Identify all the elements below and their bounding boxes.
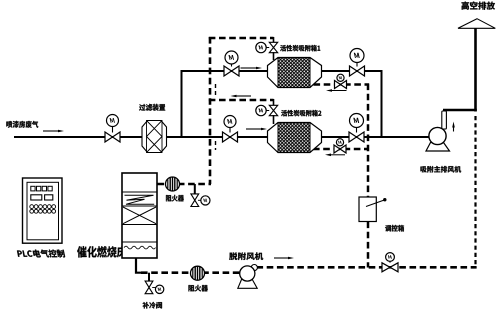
- wire main gas line from inlet to main fan: [14, 136, 429, 138]
- wire dashed desorption supply riser (left): [209, 37, 212, 184]
- fan impeller circle main exhaust fan: [429, 127, 446, 144]
- label stack 高空排放: [462, 2, 495, 10]
- PLC cabinet display windows: [31, 195, 53, 200]
- wire bed bottom elbow: [136, 258, 142, 273]
- valve V2 adsorber 2 inlet: [223, 132, 238, 142]
- label filter 过滤装置: [139, 104, 165, 111]
- wire fan discharge pipe: [443, 109, 477, 112]
- wire branch riser up to adsorber 1 inlet: [181, 70, 183, 138]
- adsorber tank A1 body: [268, 58, 322, 88]
- label desorption fan 脱附风机: [229, 252, 263, 260]
- PLC control cabinet body: [23, 178, 63, 243]
- label adsorber 1 活性炭吸附箱1: [280, 45, 320, 51]
- wire adsorber 1 outlet drop to main line: [381, 70, 383, 137]
- label adsorber 2 活性炭吸附箱2: [281, 110, 321, 116]
- label PLC cabinet PLC电气控制: [17, 250, 65, 258]
- link TV1 motor: [266, 47, 269, 49]
- valve V3 adsorber 2 outlet: [349, 132, 364, 142]
- label damper box 调控箱: [385, 225, 404, 232]
- valve TV2 adsorber 2 desorption inlet: [269, 105, 277, 115]
- label waste gas inlet 喷漆房废气: [6, 121, 38, 128]
- link TV2 motor: [266, 110, 269, 112]
- wire dashed desorption rail to adsorber 2 top valve: [209, 99, 274, 102]
- wire dashed desorption rail to adsorber 1 top valve: [209, 37, 274, 40]
- stub to desorption valve TV1: [273, 37, 275, 43]
- valve TV1 adsorber 1 desorption inlet: [269, 42, 277, 52]
- label flame arrester 2 阻火器: [189, 285, 208, 292]
- valve V1 motorized inlet valve: [105, 132, 120, 142]
- valve BV2 adsorber 2 desorption outlet: [334, 145, 346, 153]
- fan impeller circle desorption fan: [240, 266, 255, 281]
- flow arrow at inlet: [43, 130, 64, 133]
- catalytic combustion bed vessel: [122, 173, 157, 258]
- filter unit F1 (octagon with lattice): [142, 121, 167, 153]
- stub TV1 to adsorber 1 top: [273, 52, 275, 60]
- motor circle BV1: [337, 74, 344, 81]
- wire ghost tick beside riser (upper): [215, 84, 217, 95]
- valve V5 adsorber 1 outlet: [350, 66, 365, 76]
- wire dashed combustion bed outlet to riser: [158, 183, 212, 186]
- fan base main exhaust fan: [426, 143, 450, 152]
- damper control box 调控箱: [359, 197, 386, 222]
- wire exhaust stack riser: [474, 28, 477, 112]
- adsorber tank A2 body: [268, 123, 322, 153]
- bed catalyst X section: [123, 207, 156, 224]
- bed liquid wave line: [124, 246, 156, 249]
- wire dashed adsorber 1 desorption bypass: [314, 83, 370, 86]
- flame arrester FA2: [191, 266, 205, 280]
- wire ghost tick beside riser (lower): [215, 141, 217, 150]
- motor circle TV2: [256, 105, 266, 115]
- flow arrow bypass 1: [326, 89, 347, 92]
- actuator stem V4: [231, 64, 233, 67]
- valve BV3 on return line: [382, 263, 398, 272]
- label bed 催化燃烧床: [77, 246, 126, 257]
- valve BV1 adsorber 1 desorption outlet: [335, 81, 347, 89]
- stub TV2 to adsorber 2 top: [273, 115, 275, 124]
- flow arrow desorption rail 2: [231, 95, 252, 98]
- flow arrow adsorber 1 inlet: [241, 67, 263, 70]
- valve VV1 vent valve: [191, 194, 199, 207]
- link VV1 circle: [198, 199, 201, 201]
- actuator stem V5: [356, 63, 358, 67]
- actuator circle VV2: [155, 285, 163, 293]
- wire adsorber 1 inlet line: [181, 70, 268, 72]
- wire dashed right riser to stack: [474, 116, 476, 268]
- PLC cabinet button circles: [30, 205, 56, 214]
- motor circle BV3: [386, 253, 395, 262]
- actuator stem V2: [229, 128, 231, 133]
- wire dashed damper box outlet drop: [367, 222, 370, 268]
- actuator stem BV3: [389, 262, 391, 263]
- flame arrester FA1: [166, 177, 180, 191]
- flow arrow adsorber 2 inlet: [246, 128, 267, 131]
- motor circle V4: [225, 51, 238, 64]
- actuator stem V3: [356, 128, 358, 133]
- motor circle V3: [350, 114, 364, 128]
- stub to desorption valve TV2: [273, 99, 275, 106]
- wire dashed bottom return line (fan to stack riser): [257, 266, 477, 269]
- flow arrow after desorption fan: [274, 257, 294, 260]
- label make-up valve 补冷阀: [143, 302, 162, 309]
- desorption fan outlet nub: [251, 265, 257, 271]
- fan base desorption fan: [238, 280, 257, 289]
- fan outlet nub: [442, 111, 447, 129]
- wire dashed cooling line bed bottom to desorption fan: [141, 271, 241, 274]
- wire adsorber 1 outlet line: [322, 70, 383, 72]
- flow arrow bypass 2: [325, 154, 345, 157]
- stub to vent valve VV1: [194, 184, 196, 194]
- valve V4 adsorber 1 inlet: [224, 66, 239, 76]
- wire dashed drop to damper box: [367, 84, 370, 198]
- stub to make-up valve VV2: [148, 273, 150, 282]
- label flame arrester 1 阻火器: [166, 195, 184, 202]
- motor circle V5: [350, 49, 364, 63]
- actuator stem V1: [112, 127, 114, 133]
- flow arrow up stack: [452, 122, 455, 132]
- actuator circle VV1: [201, 196, 210, 205]
- motor circle TV1: [256, 42, 266, 52]
- wire dashed adsorber 2 desorption bypass: [313, 148, 369, 151]
- PLC cabinet indicator squares: [31, 186, 52, 191]
- link VV2 circle: [152, 287, 155, 289]
- stack cap triangle (high altitude discharge): [458, 19, 495, 29]
- bed electric heater zigzag: [125, 195, 155, 204]
- motor circle V2: [224, 116, 236, 128]
- valve VV2 cold air make-up valve 补冷阀: [145, 281, 153, 294]
- label main fan 吸附主排风机: [421, 166, 462, 173]
- motor circle BV2: [336, 139, 343, 146]
- motor circle V1: [107, 115, 119, 127]
